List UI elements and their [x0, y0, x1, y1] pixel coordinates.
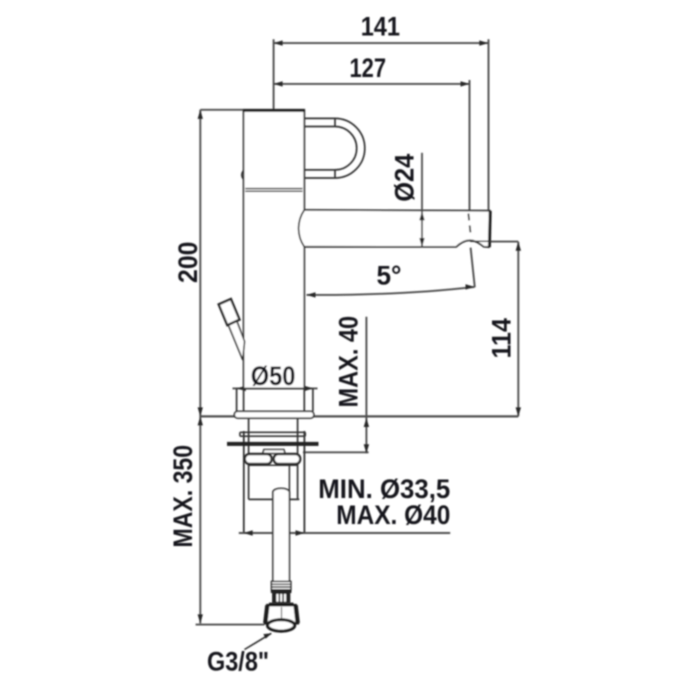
svg-text:G3/8": G3/8": [207, 646, 269, 676]
svg-text:200: 200: [173, 242, 203, 283]
svg-text:MAX. 40: MAX. 40: [334, 316, 364, 408]
svg-text:114: 114: [487, 318, 517, 358]
svg-text:5°: 5°: [377, 261, 402, 291]
svg-text:Ø50: Ø50: [251, 361, 296, 391]
svg-text:MAX. 350: MAX. 350: [168, 445, 198, 548]
svg-text:127: 127: [350, 53, 387, 83]
svg-text:Ø24: Ø24: [389, 154, 419, 202]
svg-text:141: 141: [361, 12, 400, 42]
svg-text:MAX. Ø40: MAX. Ø40: [336, 500, 450, 530]
